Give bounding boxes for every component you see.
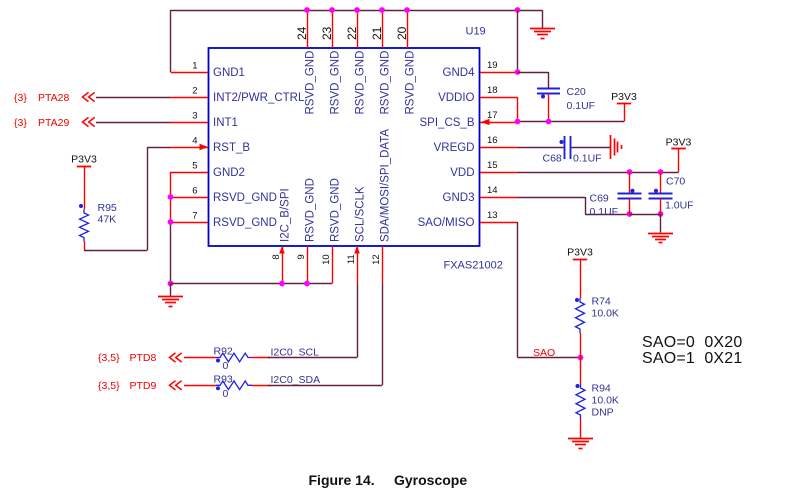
svg-text:RSVD_GND: RSVD_GND bbox=[305, 178, 317, 242]
svg-text:0: 0 bbox=[223, 388, 229, 400]
svg-text:1.0UF: 1.0UF bbox=[665, 200, 694, 212]
svg-text:SDA/MOSI/SPI_DATA: SDA/MOSI/SPI_DATA bbox=[380, 129, 392, 242]
svg-text:4: 4 bbox=[192, 136, 197, 147]
svg-text:20: 20 bbox=[395, 26, 409, 40]
svg-text:RSVD_GND: RSVD_GND bbox=[380, 51, 392, 115]
svg-text:2: 2 bbox=[192, 86, 197, 97]
svg-text:VDD: VDD bbox=[450, 167, 474, 179]
svg-text:RSVD_GND: RSVD_GND bbox=[330, 51, 342, 115]
svg-text:{3,5}: {3,5} bbox=[98, 380, 120, 392]
svg-text:47K: 47K bbox=[98, 214, 117, 226]
svg-text:GND2: GND2 bbox=[213, 167, 245, 179]
svg-text:12: 12 bbox=[371, 254, 382, 265]
svg-text:DNP: DNP bbox=[592, 407, 614, 419]
svg-text:INT1: INT1 bbox=[213, 117, 238, 129]
svg-text:RSVD_GND: RSVD_GND bbox=[213, 192, 277, 204]
svg-text:I2C0_SCL: I2C0_SCL bbox=[271, 346, 320, 358]
svg-text:16: 16 bbox=[487, 135, 498, 146]
svg-text:PTA28: PTA28 bbox=[38, 92, 69, 104]
svg-text:P3V3: P3V3 bbox=[666, 136, 692, 148]
svg-text:10.0K: 10.0K bbox=[592, 308, 619, 320]
svg-text:R93: R93 bbox=[214, 373, 233, 385]
svg-text:GND1: GND1 bbox=[213, 67, 245, 79]
svg-text:PTD9: PTD9 bbox=[130, 380, 157, 392]
svg-text:7: 7 bbox=[192, 211, 197, 222]
svg-text:22: 22 bbox=[345, 26, 359, 40]
svg-text:14: 14 bbox=[487, 185, 498, 196]
svg-text:INT2/PWR_CTRL: INT2/PWR_CTRL bbox=[213, 92, 305, 104]
svg-text:P3V3: P3V3 bbox=[611, 91, 637, 103]
svg-text:SAO=1 0X21: SAO=1 0X21 bbox=[642, 350, 743, 367]
svg-text:0.1UF: 0.1UF bbox=[573, 153, 602, 165]
svg-text:R95: R95 bbox=[98, 202, 117, 214]
svg-text:0.1UF: 0.1UF bbox=[590, 206, 619, 218]
svg-text:19: 19 bbox=[487, 60, 498, 71]
svg-text:10.0K: 10.0K bbox=[592, 395, 619, 407]
svg-text:0: 0 bbox=[223, 360, 229, 372]
svg-text:6: 6 bbox=[192, 186, 197, 197]
svg-text:PTA29: PTA29 bbox=[38, 117, 69, 129]
svg-text:24: 24 bbox=[295, 26, 309, 40]
svg-text:I2C0_SDA: I2C0_SDA bbox=[271, 374, 321, 386]
svg-text:13: 13 bbox=[487, 210, 498, 221]
svg-text:SAO/MISO: SAO/MISO bbox=[418, 217, 475, 229]
svg-text:{3}: {3} bbox=[14, 92, 27, 104]
svg-text:RST_B: RST_B bbox=[213, 142, 250, 154]
svg-text:GND3: GND3 bbox=[443, 192, 475, 204]
svg-text:C68: C68 bbox=[543, 153, 562, 165]
svg-text:C20: C20 bbox=[567, 86, 586, 98]
svg-text:9: 9 bbox=[296, 254, 307, 259]
svg-text:5: 5 bbox=[192, 161, 197, 172]
svg-text:C70: C70 bbox=[666, 176, 685, 188]
svg-text:{3}: {3} bbox=[14, 117, 27, 129]
svg-text:U19: U19 bbox=[466, 26, 486, 38]
svg-text:GND4: GND4 bbox=[443, 67, 476, 79]
svg-text:Gyroscope: Gyroscope bbox=[394, 472, 467, 488]
svg-text:RSVD_GND: RSVD_GND bbox=[355, 51, 367, 115]
svg-text:R94: R94 bbox=[592, 383, 611, 395]
svg-text:VREGD: VREGD bbox=[434, 142, 475, 154]
svg-text:R74: R74 bbox=[592, 296, 611, 308]
svg-text:18: 18 bbox=[487, 85, 498, 96]
svg-text:C69: C69 bbox=[590, 193, 609, 205]
svg-text:17: 17 bbox=[487, 110, 498, 121]
svg-text:21: 21 bbox=[370, 26, 384, 40]
svg-text:8: 8 bbox=[271, 254, 282, 259]
svg-text:P3V3: P3V3 bbox=[71, 154, 97, 166]
svg-text:11: 11 bbox=[346, 254, 357, 264]
svg-text:R92: R92 bbox=[214, 346, 233, 358]
svg-text:RSVD_GND: RSVD_GND bbox=[405, 51, 417, 115]
svg-text:15: 15 bbox=[487, 160, 498, 171]
svg-text:I2C_B/SPI: I2C_B/SPI bbox=[280, 188, 292, 242]
svg-text:RSVD_GND: RSVD_GND bbox=[330, 178, 342, 242]
svg-text:10: 10 bbox=[321, 254, 332, 265]
svg-text:3: 3 bbox=[192, 111, 197, 122]
svg-text:SCL/SCLK: SCL/SCLK bbox=[355, 186, 367, 242]
svg-text:23: 23 bbox=[320, 26, 334, 40]
svg-text:0.1UF: 0.1UF bbox=[567, 100, 596, 112]
svg-text:SPI_CS_B: SPI_CS_B bbox=[420, 117, 475, 129]
svg-text:{3,5}: {3,5} bbox=[98, 352, 120, 364]
svg-text:P3V3: P3V3 bbox=[567, 247, 593, 259]
svg-text:SAO: SAO bbox=[533, 347, 555, 359]
svg-text:PTD8: PTD8 bbox=[130, 352, 157, 364]
svg-text:SAO=0 0X20: SAO=0 0X20 bbox=[642, 334, 743, 351]
svg-text:RSVD_GND: RSVD_GND bbox=[213, 217, 277, 229]
svg-text:FXAS21002: FXAS21002 bbox=[444, 260, 503, 272]
svg-text:1: 1 bbox=[192, 61, 197, 72]
svg-text:VDDIO: VDDIO bbox=[438, 92, 474, 104]
svg-text:RSVD_GND: RSVD_GND bbox=[305, 51, 317, 115]
svg-text:Figure 14.: Figure 14. bbox=[309, 472, 375, 488]
